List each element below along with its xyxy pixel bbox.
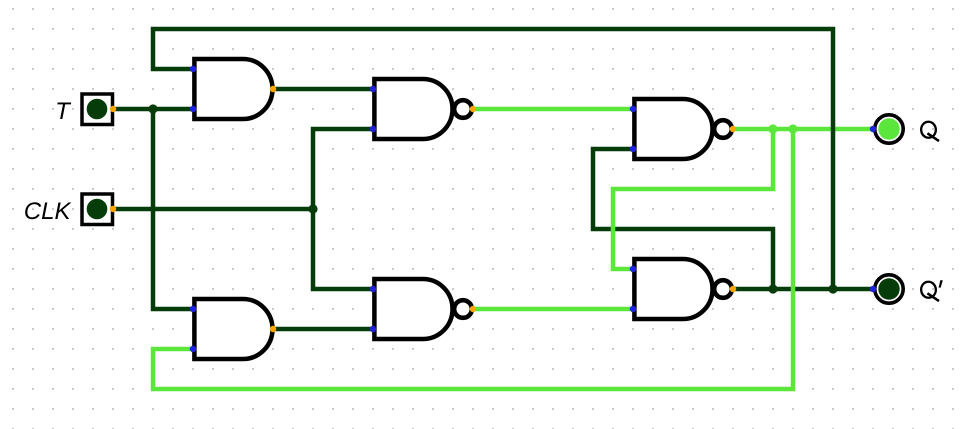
AND gate A1	[190, 59, 276, 119]
junction T net	[148, 104, 157, 113]
wire T net vertical and into A2.in1	[153, 109, 193, 309]
wire N2 output to N4.in2 (bright)	[473, 307, 633, 312]
wire N3 output to Q (bright, net Q)	[733, 127, 873, 132]
wire Q' cross-coupling to N3.in2	[593, 149, 773, 289]
wire A2 output to N2.in2 (dark)	[273, 327, 373, 332]
NAND gate N2	[370, 279, 476, 339]
junction Q net right	[788, 124, 797, 133]
wire CLK net horizontal	[113, 207, 313, 212]
label T	[57, 102, 71, 119]
wire Q cross-coupling to N4.in1 (bright)	[613, 129, 773, 269]
wire N1 output to N3.in1 (bright)	[473, 107, 633, 112]
wire CLK net down to N2.in1	[313, 209, 373, 289]
wire A1 output to N1.in1 (dark)	[273, 87, 373, 92]
output Q' (LED low)	[870, 275, 903, 303]
AND gate A2	[190, 299, 276, 359]
NAND gate N3	[630, 99, 736, 159]
wire Q feedback bottom to A2.in2 (bright)	[153, 129, 793, 389]
wire CLK net up to N1.in2	[313, 129, 373, 209]
NAND gate N4	[630, 259, 736, 319]
junction CLK net	[308, 204, 317, 213]
label Q'	[921, 280, 943, 301]
output Q (LED high)	[870, 115, 903, 143]
input CLK (button)	[82, 194, 116, 225]
wire Q' feedback top to A1.in1	[153, 29, 833, 289]
NAND gate N1	[370, 79, 476, 139]
junction Q net left	[768, 124, 777, 133]
label CLK	[25, 202, 71, 219]
input T (button)	[82, 94, 116, 125]
label Q	[921, 121, 939, 141]
wire N4 output to Q' (dark, net Q')	[733, 287, 873, 292]
wire T input net (dark) horizontal to A1.in2	[113, 107, 193, 112]
junction Q' net left	[768, 284, 777, 293]
junction Q' net right	[828, 284, 837, 293]
